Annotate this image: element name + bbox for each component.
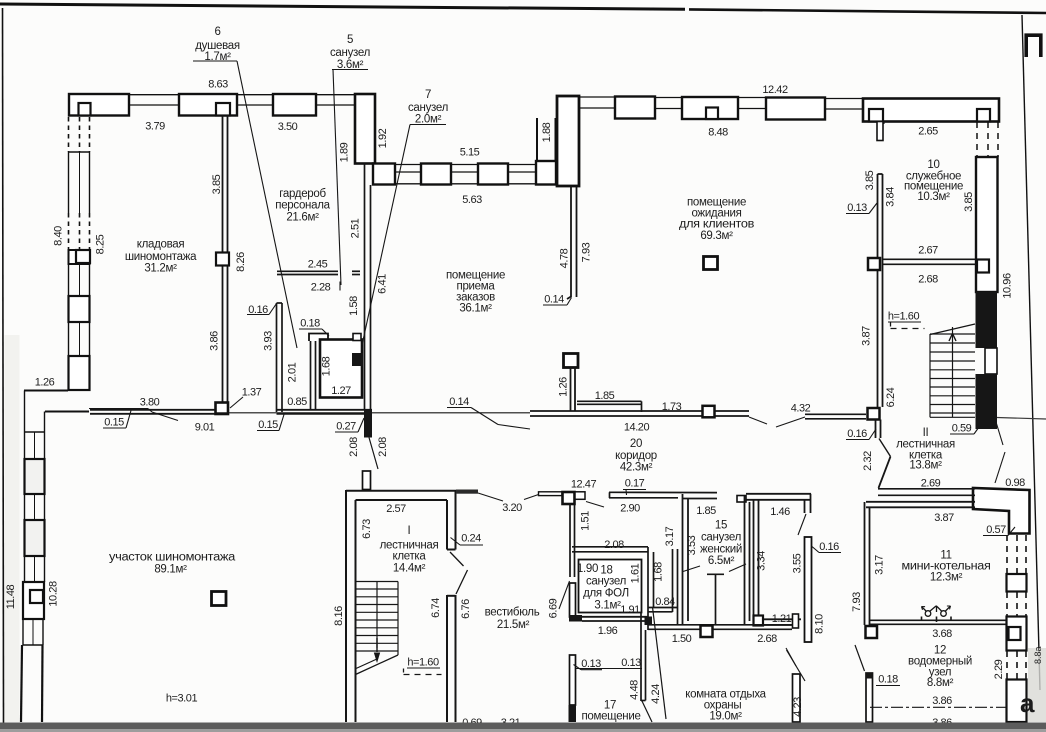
wall 1.85 над коридором xyxy=(577,401,642,412)
0.13 sluzh underline+tick xyxy=(846,213,869,215)
freestanding wall 8.10 xyxy=(805,537,812,642)
recess corner block right xyxy=(536,161,556,185)
svg-text:2.90: 2.90 xyxy=(620,503,640,515)
pier vestibule window xyxy=(563,492,575,504)
svg-text:1.68: 1.68 xyxy=(321,356,333,376)
room label: komnata otdyha xyxy=(685,689,766,723)
svg-text:14.4м²: 14.4м² xyxy=(393,563,426,575)
svg-text:1.21: 1.21 xyxy=(772,613,792,625)
svg-text:0.18: 0.18 xyxy=(300,318,320,330)
corner pier block xyxy=(557,96,579,186)
long wall x364-371 (west of priema zakazov) xyxy=(365,163,371,410)
0.13 underline rm17 b xyxy=(619,668,642,670)
0.17 underline+tick xyxy=(623,489,646,491)
0.16 stairII underline+tick xyxy=(846,439,869,441)
svg-text:1.46: 1.46 xyxy=(770,506,790,518)
svg-text:8.25: 8.25 xyxy=(95,234,107,254)
right wall black section 1 xyxy=(976,292,998,348)
corridor west wall x574-580 xyxy=(570,505,575,578)
diagonal door of stair II xyxy=(879,439,891,457)
svg-text:3.86: 3.86 xyxy=(209,331,221,351)
leaders crossing to room17 xyxy=(653,607,667,719)
svg-text:клетка: клетка xyxy=(392,551,426,563)
bottom scan band over text xyxy=(0,723,1046,730)
vertical dims xyxy=(5,122,1014,716)
1.46 corner leader xyxy=(798,514,806,535)
leader diag to stub xyxy=(855,645,865,671)
dim line 9.01 / 0.27 xyxy=(215,412,530,414)
room label: uchastok xyxy=(109,552,236,576)
svg-text:7.93: 7.93 xyxy=(851,592,863,612)
svg-text:14.20: 14.20 xyxy=(624,422,650,434)
dash-dot line 3.86 xyxy=(870,706,1006,708)
svg-text:0.15: 0.15 xyxy=(104,417,124,429)
sanuzel 7 box xyxy=(320,340,362,398)
svg-text:1.92: 1.92 xyxy=(377,128,389,148)
svg-text:2.0м²: 2.0м² xyxy=(415,114,442,126)
window r3 xyxy=(655,98,682,109)
svg-text:0.59: 0.59 xyxy=(952,423,972,435)
0.14 top underline+leader xyxy=(447,407,471,409)
svg-text:санузел: санузел xyxy=(330,47,370,59)
svg-text:6.69: 6.69 xyxy=(548,598,560,618)
room label: sanuzel zhenskiy 15 xyxy=(700,520,742,568)
pier on that wall xyxy=(701,626,713,638)
svg-text:3.87: 3.87 xyxy=(861,326,873,346)
svg-text:1.96: 1.96 xyxy=(598,625,618,637)
svg-text:69.3м²: 69.3м² xyxy=(700,230,733,242)
svg-text:3.6м²: 3.6м² xyxy=(337,59,364,71)
black cap top of 17/19 wall xyxy=(645,617,653,626)
kladovaya south wall y410-414 xyxy=(90,410,215,414)
0.24 underline+tick xyxy=(460,544,483,546)
0.15 (.15) underline+tick xyxy=(257,430,279,432)
svg-text:10: 10 xyxy=(927,159,939,171)
0.18 underline+tick xyxy=(299,328,322,330)
svg-text:участок шиномонтажа: участок шиномонтажа xyxy=(109,552,236,564)
step out at y390 xyxy=(24,391,89,412)
dim zigzag to 4.32 xyxy=(749,417,805,427)
room label: okhrana 17 xyxy=(581,700,640,732)
svg-text:2.08: 2.08 xyxy=(348,437,360,457)
stair I treads xyxy=(356,582,398,656)
room 11 north wall y501-508 xyxy=(866,502,975,508)
6.69 leader xyxy=(559,581,570,609)
svg-text:0.57: 0.57 xyxy=(986,524,1006,536)
3.20 leader from black bar xyxy=(478,493,503,501)
room 1.46 bottom wall xyxy=(754,619,802,625)
wall between 6 and 5 x310-316 xyxy=(311,341,316,410)
room 15 east wall xyxy=(745,496,750,624)
komnata otdyha east wall lower xyxy=(793,674,801,722)
svg-text:3.85: 3.85 xyxy=(963,192,975,212)
П letter top right xyxy=(1026,35,1041,57)
svg-text:6.24: 6.24 xyxy=(885,387,897,407)
pier on kladovaya wall xyxy=(216,253,229,266)
pier r8b xyxy=(977,109,990,122)
room label: koridor 20 xyxy=(615,438,657,474)
svg-text:0.18: 0.18 xyxy=(878,674,898,686)
recess window c xyxy=(451,165,478,184)
svg-text:3.17: 3.17 xyxy=(664,526,676,546)
svg-text:8.8м²: 8.8м² xyxy=(927,677,954,689)
svg-text:7.93: 7.93 xyxy=(581,242,593,262)
svg-text:0.27: 0.27 xyxy=(336,421,356,433)
svg-text:гардероб: гардероб xyxy=(279,188,326,200)
pier at 2.67 wall junction xyxy=(977,260,989,273)
svg-text:10.28: 10.28 xyxy=(48,581,60,607)
room label: stair II xyxy=(896,427,955,472)
window l7 xyxy=(23,619,43,645)
label 7 underline + leader xyxy=(410,124,446,126)
right wall window xyxy=(985,348,997,374)
svg-text:2.68: 2.68 xyxy=(757,633,777,645)
svg-text:3.80: 3.80 xyxy=(140,397,160,409)
stairwell I outer box xyxy=(346,490,456,722)
svg-text:19.0м²: 19.0м² xyxy=(709,711,742,723)
4.32 wall segment xyxy=(805,414,866,419)
room label: sluzhebnoe 10 xyxy=(904,159,963,203)
room label: dushevaya 6 xyxy=(195,26,240,63)
svg-text:0.17: 0.17 xyxy=(625,478,645,490)
komnata otdyha leaders xyxy=(787,650,806,681)
svg-text:6.5м²: 6.5м² xyxy=(708,555,735,567)
svg-text:5.15: 5.15 xyxy=(460,147,480,159)
svg-text:1.51: 1.51 xyxy=(580,511,592,531)
column below (x563-578) xyxy=(564,354,579,368)
svg-text:21.6м²: 21.6м² xyxy=(286,212,319,224)
0.84 shaft box xyxy=(648,549,678,624)
wall x647-654 (east of room18) xyxy=(648,547,654,630)
svg-text:1.27: 1.27 xyxy=(331,385,351,397)
vestibule west wall lower part xyxy=(447,595,456,722)
door swing diagonals xyxy=(450,552,464,566)
pier r8a xyxy=(869,109,883,122)
room label: vestibul xyxy=(485,607,540,632)
svg-text:1.26: 1.26 xyxy=(35,377,55,389)
svg-text:2.01: 2.01 xyxy=(287,362,299,382)
svg-text:вестибюль: вестибюль xyxy=(485,607,540,619)
svg-text:6.73: 6.73 xyxy=(361,519,373,539)
0.15 left underline+tick xyxy=(103,427,126,429)
svg-text:4.24: 4.24 xyxy=(650,684,662,704)
svg-text:3.68: 3.68 xyxy=(932,628,952,640)
0.57 underline+tick xyxy=(983,535,1008,537)
room label: sanuzel FOL 18 xyxy=(577,563,629,612)
door post at room7 top xyxy=(353,334,361,341)
dashed opening 2 xyxy=(69,213,90,250)
svg-text:санузел: санузел xyxy=(701,532,741,544)
svg-text:0.13: 0.13 xyxy=(581,658,601,670)
svg-text:4.78: 4.78 xyxy=(559,248,571,268)
svg-text:1.58: 1.58 xyxy=(348,296,360,316)
wall x570-575 below column xyxy=(571,368,576,412)
svg-text:4.48: 4.48 xyxy=(629,680,641,700)
svg-text:36.1м²: 36.1м² xyxy=(459,303,492,315)
dushevaya west wall x276-282 xyxy=(277,303,283,412)
svg-text:II: II xyxy=(923,427,929,439)
svg-text:2.67: 2.67 xyxy=(918,245,938,257)
h=1.60 underlines xyxy=(888,321,921,323)
svg-text:h=1.60: h=1.60 xyxy=(407,657,439,669)
svg-text:3.85: 3.85 xyxy=(211,174,223,194)
svg-text:31.2м²: 31.2м² xyxy=(144,263,177,275)
window w4 xyxy=(69,322,90,356)
svg-text:2.08: 2.08 xyxy=(377,437,389,457)
room label: stair I xyxy=(380,525,439,575)
svg-text:1.85: 1.85 xyxy=(595,390,615,402)
svg-text:0.24: 0.24 xyxy=(461,533,481,545)
svg-text:3.1м²: 3.1м² xyxy=(594,600,621,612)
svg-text:8.48: 8.48 xyxy=(708,127,728,139)
pier on corridor wall xyxy=(703,406,715,418)
recess block d xyxy=(478,164,508,185)
3.80 line with tick and leader to 9.01 xyxy=(89,408,148,410)
window w1 xyxy=(69,152,90,213)
room label: kladovaya xyxy=(125,239,197,275)
svg-text:3.17: 3.17 xyxy=(874,555,886,575)
svg-text:9.01: 9.01 xyxy=(195,422,215,434)
0.98 diagonals xyxy=(996,422,1003,445)
wall 0.13 between 17 and 19 xyxy=(641,612,646,701)
pom okhrany west stub xyxy=(570,655,576,705)
svg-text:3.85: 3.85 xyxy=(864,170,876,190)
svg-text:0.16: 0.16 xyxy=(847,428,867,440)
wall block w5 xyxy=(69,356,90,390)
window 1 xyxy=(129,95,179,105)
room18 inner box xyxy=(579,560,642,613)
svg-text:12.42: 12.42 xyxy=(762,84,788,96)
svg-text:для ФОЛ: для ФОЛ xyxy=(583,588,629,600)
svg-text:1.50: 1.50 xyxy=(672,633,692,645)
svg-text:5.63: 5.63 xyxy=(462,194,482,206)
svg-text:5: 5 xyxy=(347,34,353,46)
svg-text:2.69: 2.69 xyxy=(921,478,941,490)
svg-text:0.14: 0.14 xyxy=(544,294,564,306)
pier block l6 with inner square xyxy=(23,582,44,619)
stair II cut diagonal xyxy=(930,324,975,335)
svg-text:1.37: 1.37 xyxy=(242,387,262,399)
svg-text:санузел: санузел xyxy=(408,102,448,114)
svg-text:3.93: 3.93 xyxy=(263,331,275,351)
svg-text:20: 20 xyxy=(630,438,642,450)
stair II up arrow xyxy=(949,334,956,342)
room label: sanuzel 7 xyxy=(408,89,448,126)
stub below pier (0.16) xyxy=(876,420,881,439)
thin scan line right of wall xyxy=(997,418,1046,420)
svg-text:8.8а: 8.8а xyxy=(1033,646,1043,664)
wall block 2 xyxy=(179,94,237,116)
stub right of pier xyxy=(575,492,585,500)
0.13 underline+tick rm17 a xyxy=(581,669,602,671)
svg-text:6.76: 6.76 xyxy=(460,599,472,619)
svg-text:3.20: 3.20 xyxy=(502,502,522,514)
svg-text:3.55: 3.55 xyxy=(792,553,804,573)
svg-text:h=1.60: h=1.60 xyxy=(888,311,920,323)
0.59 underline+tick xyxy=(950,433,974,435)
svg-text:3.87: 3.87 xyxy=(934,512,954,524)
window r5 xyxy=(738,98,766,109)
window r7 xyxy=(825,99,863,110)
right wall black section 2 xyxy=(976,374,998,429)
svg-text:0.85: 0.85 xyxy=(287,396,307,408)
svg-text:10.3м²: 10.3м² xyxy=(917,191,950,203)
svg-text:1.68: 1.68 xyxy=(653,562,665,582)
svg-text:0.98: 0.98 xyxy=(1005,477,1025,489)
left margin scan tint xyxy=(5,335,20,722)
svg-text:1.90: 1.90 xyxy=(577,563,598,575)
svg-text:2.29: 2.29 xyxy=(993,659,1005,679)
leader 2.90 xyxy=(586,502,604,508)
svg-text:а: а xyxy=(1020,688,1035,718)
pom okhrany north line y668 xyxy=(575,668,641,670)
pier block l2 xyxy=(25,459,45,494)
pier at 6.24 wall xyxy=(868,408,880,420)
post SE of room 1.46 xyxy=(793,614,799,628)
svg-text:8.40: 8.40 xyxy=(53,226,65,246)
window w2 xyxy=(69,264,90,296)
svg-text:3.84: 3.84 xyxy=(885,187,897,207)
leader from black bar xyxy=(369,438,378,470)
svg-text:89.1м²: 89.1м² xyxy=(154,564,187,576)
pier black at south end of kladovaya wall xyxy=(216,403,229,415)
recess block b xyxy=(421,164,451,185)
svg-text:3.50: 3.50 xyxy=(278,121,298,133)
room 1.46 north wall xyxy=(746,494,811,500)
window r1 xyxy=(579,97,615,108)
1.37 leader xyxy=(230,397,243,408)
room label: ozhidaniya xyxy=(679,197,754,243)
svg-text:8.26: 8.26 xyxy=(235,252,247,272)
stair I arrow down xyxy=(376,638,378,652)
right wall upper outlined xyxy=(976,157,998,292)
svg-text:1.26: 1.26 xyxy=(558,377,570,397)
corner wall block at sanuzel 7 going down xyxy=(355,94,375,164)
svg-text:2.51: 2.51 xyxy=(350,218,362,238)
svg-text:2.28: 2.28 xyxy=(311,282,331,294)
pier at bottom of room11 west wall xyxy=(866,626,878,638)
plain wall to bottom xyxy=(21,645,43,722)
svg-text:I: I xyxy=(408,525,411,537)
svg-text:1.89: 1.89 xyxy=(339,142,351,162)
window l3 xyxy=(25,494,45,520)
svg-text:персонала: персонала xyxy=(275,200,330,212)
svg-text:1.73: 1.73 xyxy=(662,401,682,413)
svg-text:0.84: 0.84 xyxy=(655,596,675,608)
svg-text:3.53: 3.53 xyxy=(686,535,698,555)
svg-text:1.85: 1.85 xyxy=(696,505,716,517)
label 6 underline + leader xyxy=(193,60,237,62)
svg-text:0.13: 0.13 xyxy=(847,202,867,214)
svg-text:2.65: 2.65 xyxy=(918,126,938,138)
door header between 6 and 5 xyxy=(309,334,328,342)
recess corner block left xyxy=(373,164,395,185)
0.16 8.10wall leader xyxy=(812,547,819,553)
room12 west wall stub (0.18) xyxy=(866,673,873,722)
wall y271-274 (2.45) xyxy=(277,271,360,274)
sanuzel bottom wall y410-414 xyxy=(277,410,373,414)
svg-text:0.13: 0.13 xyxy=(621,657,641,669)
svg-text:0.16: 0.16 xyxy=(248,304,268,316)
room label: vodomerny 12 xyxy=(908,645,972,690)
svg-text:3.79: 3.79 xyxy=(145,121,165,133)
2.28 tick xyxy=(339,282,341,291)
black bar right of stairwell top xyxy=(456,490,478,494)
room18 enclosure outer xyxy=(572,547,648,552)
wall block r2 xyxy=(615,97,655,119)
window l1 xyxy=(25,391,45,460)
svg-text:шиномонтажа: шиномонтажа xyxy=(125,251,197,263)
window l5 xyxy=(25,556,45,582)
room label: garderob xyxy=(275,188,330,224)
svg-text:0.16: 0.16 xyxy=(819,541,839,553)
svg-text:42.3м²: 42.3м² xyxy=(620,462,653,474)
svg-text:санузел: санузел xyxy=(586,576,626,588)
post left of room15 top door xyxy=(737,496,746,503)
0.18 rm12 underline xyxy=(876,685,900,687)
wall block r8 (east end) xyxy=(863,99,999,122)
svg-text:1.91: 1.91 xyxy=(620,604,640,616)
svg-text:21.5м²: 21.5м² xyxy=(497,619,530,631)
svg-text:6.74: 6.74 xyxy=(430,598,442,618)
dim line 2.65 small line xyxy=(883,122,885,125)
room label: kotelnaya 11 xyxy=(902,550,991,584)
window 2 xyxy=(237,95,273,105)
wall block w3 xyxy=(69,296,90,322)
pier in block r4 xyxy=(706,108,718,120)
svg-text:кладовая: кладовая xyxy=(137,239,185,251)
svg-text:2.08: 2.08 xyxy=(604,539,624,551)
svg-text:8.63: 8.63 xyxy=(208,79,228,91)
dashed opening 1 xyxy=(69,117,90,152)
recess window a xyxy=(395,165,421,184)
svg-text:7: 7 xyxy=(425,89,431,101)
svg-text:0.14: 0.14 xyxy=(449,396,469,408)
svg-text:1.61: 1.61 xyxy=(630,563,642,583)
svg-text:2.68: 2.68 xyxy=(918,274,938,286)
vertical jog wall (1.88) xyxy=(537,118,556,161)
svg-text:12.3м²: 12.3м² xyxy=(930,572,963,584)
svg-text:0.15: 0.15 xyxy=(258,419,278,431)
4.23 leaders xyxy=(786,648,796,666)
room 1.46 west wall xyxy=(754,499,759,619)
svg-text:8.10: 8.10 xyxy=(814,614,826,634)
room label: priema zakazov xyxy=(446,270,505,315)
svg-text:для клиентов: для клиентов xyxy=(679,219,754,231)
window 3 xyxy=(316,95,356,105)
svg-text:2.57: 2.57 xyxy=(386,503,406,515)
0.27 underline+tick xyxy=(335,431,358,433)
svg-text:h=3.01: h=3.01 xyxy=(166,693,198,705)
6.5 label brackets xyxy=(683,566,700,572)
wall block r4 xyxy=(682,97,738,119)
svg-text:1.88: 1.88 xyxy=(541,122,553,142)
wall block r6 xyxy=(766,98,825,120)
corridor wall double y411-416 xyxy=(530,411,749,416)
room18 bottom outer xyxy=(582,617,648,621)
white stub above stairwell (0.27 door) xyxy=(363,471,371,490)
svg-text:13.8м²: 13.8м² xyxy=(909,460,942,472)
wall block 3 xyxy=(273,94,316,116)
room 15 west wall xyxy=(683,494,689,624)
label 5 underline + leader xyxy=(332,69,368,71)
pier with inner square xyxy=(69,250,90,264)
svg-text:10.96: 10.96 xyxy=(1002,273,1014,299)
svg-text:15: 15 xyxy=(715,520,727,532)
svg-text:2.45: 2.45 xyxy=(308,259,328,271)
svg-text:2.32: 2.32 xyxy=(862,451,874,471)
room label: sanuzel 5 xyxy=(330,34,370,71)
